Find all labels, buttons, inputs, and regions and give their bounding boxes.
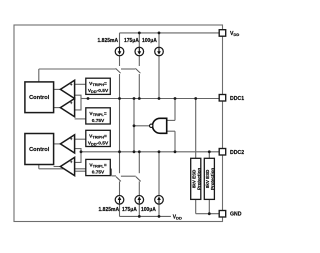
svg-text:VTRIPL=: VTRIPL=: [89, 162, 106, 168]
svg-text:DDC1: DDC1: [230, 96, 244, 102]
svg-text:1.825mA: 1.825mA: [99, 207, 120, 213]
svg-text:VDD: VDD: [173, 215, 182, 221]
svg-text:175µA: 175µA: [124, 38, 139, 44]
svg-text:175µA: 175µA: [122, 207, 137, 213]
svg-text:Control: Control: [29, 95, 50, 101]
svg-text:0.75V: 0.75V: [92, 169, 105, 175]
svg-text:VDD: VDD: [230, 31, 239, 37]
svg-text:VTRIPH=: VTRIPH=: [89, 133, 107, 139]
svg-text:Protection: Protection: [210, 168, 215, 191]
svg-text:DDC2: DDC2: [230, 150, 244, 156]
svg-text:100µA: 100µA: [142, 38, 157, 44]
svg-text:VTRIPH=: VTRIPH=: [89, 81, 107, 87]
svg-text:GND: GND: [230, 212, 242, 218]
svg-text:VDD-0.5V: VDD-0.5V: [88, 88, 109, 94]
svg-text:VTRIPL=: VTRIPL=: [89, 111, 106, 117]
svg-text:1.825mA: 1.825mA: [98, 38, 119, 44]
svg-text:0.75V: 0.75V: [92, 118, 105, 124]
svg-text:100µA: 100µA: [141, 207, 156, 213]
svg-text:VDD-0.5V: VDD-0.5V: [88, 140, 109, 146]
svg-text:Protection: Protection: [196, 168, 201, 191]
svg-text:Control: Control: [29, 147, 50, 153]
